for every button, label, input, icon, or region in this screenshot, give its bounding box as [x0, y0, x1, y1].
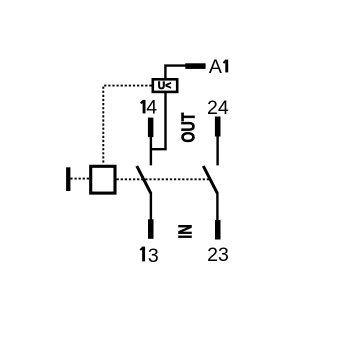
terminal 13: [148, 219, 154, 239]
wire: blade to terminal 23: [216, 193, 218, 221]
contact blade 13-14 (NO contact): [137, 166, 151, 193]
svg-text:U<: U<: [158, 80, 171, 92]
trip mechanism box: [91, 166, 115, 193]
svg-text:23: 23: [207, 244, 229, 266]
terminal 14: [148, 118, 154, 138]
label 13: [140, 245, 159, 267]
contact blade 23-24 (NO contact): [203, 166, 217, 193]
wire: A1 terminal to coil U< (up from box, right to terminal): [165, 66, 185, 79]
dashed mechanical link: coil to trip mechanism box: [103, 86, 151, 164]
label A1: [209, 56, 227, 78]
manual actuator bar (test button): [66, 167, 70, 191]
label 14: [141, 97, 158, 119]
terminal 23: [215, 220, 221, 240]
svg-text:A: A: [209, 56, 222, 78]
terminal A1 (plug-in blade): [185, 63, 205, 69]
dashed link: actuator to mechanism box: [70, 178, 89, 180]
wire: blade to terminal 13: [150, 193, 152, 220]
svg-text:3: 3: [148, 245, 159, 267]
svg-text:OUT: OUT: [178, 112, 199, 143]
terminal 24: [215, 117, 221, 137]
svg-text:24: 24: [207, 97, 229, 119]
coil U1: undervoltage release box U<: [153, 79, 177, 92]
dashed link: mechanism box to contact blades: [117, 178, 209, 180]
svg-text:IN: IN: [174, 224, 195, 239]
wire: coil U< output down and left into node on 14 wire: [151, 93, 166, 150]
wire: terminal 14 down to fixed contact: [150, 136, 152, 165]
wire: terminal 24 down to fixed contact: [216, 135, 218, 166]
svg-text:4: 4: [146, 97, 157, 119]
